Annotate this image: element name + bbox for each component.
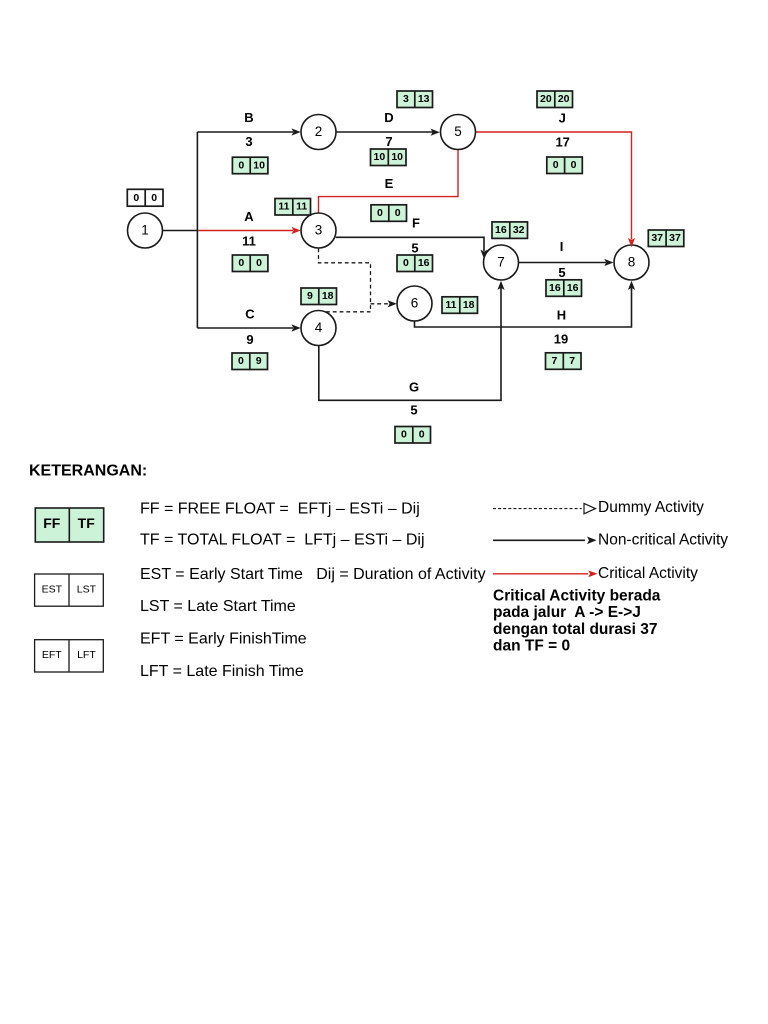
- wire edge F (3-7): [336, 237, 488, 258]
- wire dummy 4-6 dashed: [326, 311, 371, 313]
- float box 0|9 (C): [232, 353, 268, 370]
- legend text FF formula: [140, 501, 420, 518]
- svg-text:LFT: LFT: [77, 649, 96, 661]
- svg-text:18: 18: [463, 299, 475, 311]
- value 7 (D): [385, 134, 392, 149]
- svg-text:5: 5: [411, 240, 418, 255]
- svg-text:0: 0: [238, 159, 244, 171]
- wire dummy 3-6 dashed: [319, 248, 371, 311]
- svg-text:11: 11: [445, 299, 456, 311]
- svg-text:11: 11: [242, 234, 256, 249]
- wire edge D (2-5): [336, 129, 440, 136]
- label G: [409, 380, 419, 395]
- float box 0|10 (B): [232, 157, 268, 174]
- svg-text:F: F: [412, 216, 420, 231]
- node 1: [128, 213, 163, 248]
- node 6: [397, 286, 432, 321]
- svg-text:C: C: [245, 306, 255, 321]
- svg-text:0: 0: [401, 429, 407, 441]
- svg-text:10: 10: [253, 159, 265, 171]
- float box 37|37 (node8): [648, 230, 684, 247]
- svg-text:G: G: [409, 380, 419, 395]
- svg-text:7: 7: [551, 355, 557, 367]
- wire edge A (1-3) critical red: [198, 227, 301, 234]
- svg-text:5: 5: [454, 124, 462, 139]
- svg-text:dan TF = 0: dan TF = 0: [493, 637, 570, 654]
- svg-text:37: 37: [669, 232, 681, 244]
- svg-text:H: H: [557, 308, 566, 323]
- svg-text:Critical Activity: Critical Activity: [598, 565, 698, 582]
- svg-text:7: 7: [497, 255, 505, 270]
- svg-text:Dummy Activity: Dummy Activity: [598, 499, 704, 516]
- value 5 (F): [411, 240, 418, 255]
- svg-text:TF = TOTAL FLOAT = LFTj – EST: TF = TOTAL FLOAT = LFTj – ESTi – Dij: [140, 532, 425, 549]
- svg-text:1: 1: [141, 223, 149, 238]
- legend text TF formula: [140, 532, 425, 549]
- legend title KETERANGAN: [29, 463, 147, 480]
- svg-text:20: 20: [540, 93, 552, 105]
- svg-text:32: 32: [513, 224, 525, 236]
- legend note critical path: [493, 588, 661, 655]
- svg-text:EFT = Early FinishTime: EFT = Early FinishTime: [140, 631, 307, 648]
- legend text EFT: [140, 631, 307, 648]
- legend text LST: [140, 598, 296, 615]
- float box 9|18 (node4): [301, 288, 337, 305]
- svg-text:0: 0: [395, 207, 401, 219]
- svg-text:0: 0: [238, 355, 244, 367]
- svg-text:dengan total durasi 37: dengan total durasi 37: [493, 621, 658, 638]
- svg-text:19: 19: [554, 332, 568, 347]
- node 2: [301, 115, 336, 150]
- legend text LFT: [140, 663, 304, 680]
- svg-text:E: E: [385, 176, 394, 191]
- svg-text:8: 8: [628, 255, 636, 270]
- wire edge G (4-7): [319, 281, 505, 401]
- wire edge I (7-8): [519, 259, 614, 266]
- wire dummy arrow into 6: [371, 300, 397, 307]
- svg-text:FF: FF: [43, 515, 61, 531]
- svg-text:D: D: [384, 110, 393, 125]
- label B: [244, 110, 253, 125]
- svg-text:17: 17: [555, 135, 569, 150]
- node 7: [484, 245, 519, 280]
- wire node1 to junction: [163, 230, 199, 232]
- float box 7|7 (H): [546, 353, 582, 370]
- label F: [412, 216, 420, 231]
- svg-text:9: 9: [246, 332, 253, 347]
- svg-text:B: B: [244, 110, 253, 125]
- svg-text:0: 0: [151, 192, 157, 204]
- svg-text:0: 0: [377, 207, 383, 219]
- svg-text:18: 18: [322, 290, 334, 302]
- svg-text:KETERANGAN:: KETERANGAN:: [29, 463, 147, 480]
- wire edge H (6-8): [415, 281, 636, 327]
- legend text EST: [140, 566, 486, 583]
- svg-text:EST = Early Start Time Dij =: EST = Early Start Time Dij = Duration of…: [140, 566, 486, 583]
- wire edge E (3-5) critical red: [319, 150, 459, 214]
- legend box EST|LST: [35, 574, 104, 606]
- svg-text:LST = Late Start Time: LST = Late Start Time: [140, 598, 296, 615]
- float box 16|32 (node7): [492, 222, 528, 239]
- svg-text:5: 5: [410, 403, 417, 418]
- svg-text:10: 10: [374, 151, 386, 163]
- svg-text:3: 3: [245, 134, 252, 149]
- value 19 (H): [554, 332, 568, 347]
- value 5 (G): [410, 403, 417, 418]
- float box 20|20: [537, 91, 573, 108]
- label I: [560, 239, 564, 254]
- label H: [557, 308, 566, 323]
- svg-text:9: 9: [307, 290, 313, 302]
- svg-text:0: 0: [419, 429, 425, 441]
- wire edge C (1-4): [197, 324, 300, 331]
- svg-text:16: 16: [418, 257, 430, 269]
- svg-text:11: 11: [296, 201, 307, 213]
- float box 11|11 (node3): [275, 199, 311, 216]
- label D: [384, 110, 393, 125]
- svg-text:LST: LST: [77, 584, 97, 596]
- value 5 (I): [558, 265, 565, 280]
- label A: [244, 209, 254, 224]
- svg-text:Critical Activity berada: Critical Activity berada: [493, 588, 661, 605]
- svg-text:10: 10: [391, 151, 403, 163]
- value 9 (C): [246, 332, 253, 347]
- wire edge B (1-2): [197, 128, 300, 135]
- svg-text:16: 16: [567, 282, 579, 294]
- svg-text:0: 0: [238, 257, 244, 269]
- float box 10|10 (D): [371, 149, 407, 166]
- svg-text:J: J: [559, 110, 566, 125]
- label J: [559, 110, 566, 125]
- float box 0|0 node1 white: [127, 189, 163, 206]
- legend box EFT|LFT: [35, 640, 104, 672]
- svg-text:7: 7: [569, 355, 575, 367]
- svg-text:3: 3: [403, 93, 409, 105]
- label E: [385, 176, 394, 191]
- legend critical sample: [493, 565, 698, 582]
- float box 16|16 (I): [546, 280, 582, 297]
- svg-text:4: 4: [315, 320, 323, 335]
- float box 0|0 (E): [371, 205, 407, 222]
- value 11 (A): [242, 234, 256, 249]
- svg-text:TF: TF: [78, 515, 96, 531]
- svg-text:0: 0: [256, 257, 262, 269]
- svg-text:5: 5: [558, 265, 565, 280]
- svg-text:13: 13: [418, 93, 430, 105]
- float box 11|18 (node6): [442, 297, 478, 314]
- svg-text:0: 0: [133, 192, 139, 204]
- node 5: [441, 115, 476, 150]
- svg-text:20: 20: [558, 93, 570, 105]
- float box 3|13: [397, 91, 433, 108]
- svg-text:EFT: EFT: [42, 649, 62, 661]
- svg-text:FF = FREE FLOAT = EFTj – ESTi: FF = FREE FLOAT = EFTj – ESTi – Dij: [140, 501, 420, 518]
- svg-text:EST: EST: [42, 584, 63, 596]
- float box 0|0 (J): [547, 157, 583, 174]
- float box 0|0 (A): [232, 255, 268, 272]
- svg-text:0: 0: [571, 159, 577, 171]
- node 3: [301, 213, 336, 248]
- svg-text:0: 0: [403, 257, 409, 269]
- svg-text:16: 16: [549, 282, 561, 294]
- legend dummy activity sample: [493, 499, 704, 516]
- arrowhead J into node 8: [628, 238, 635, 247]
- label C: [245, 306, 255, 321]
- svg-text:11: 11: [278, 201, 289, 213]
- svg-text:0: 0: [553, 159, 559, 171]
- svg-text:6: 6: [411, 296, 419, 311]
- svg-text:pada jalur A -> E->J: pada jalur A -> E->J: [493, 604, 641, 621]
- value 3 (B): [245, 134, 252, 149]
- wire vertical junction trunk: [196, 132, 198, 328]
- svg-text:16: 16: [495, 224, 507, 236]
- float box 0|0 (G): [395, 427, 431, 444]
- svg-text:2: 2: [315, 124, 323, 139]
- node 8: [614, 245, 649, 280]
- wire edge J (5-8) critical red: [476, 132, 632, 240]
- svg-text:Non-critical Activity: Non-critical Activity: [598, 532, 728, 549]
- svg-text:LFT = Late Finish Time: LFT = Late Finish Time: [140, 663, 304, 680]
- svg-text:A: A: [244, 209, 254, 224]
- svg-text:3: 3: [315, 223, 323, 238]
- svg-text:I: I: [560, 239, 564, 254]
- legend box FF|TF: [35, 508, 103, 542]
- value 17 (J): [555, 135, 569, 150]
- svg-text:37: 37: [651, 232, 663, 244]
- float box 0|16 (F): [397, 255, 433, 272]
- svg-text:7: 7: [385, 134, 392, 149]
- svg-text:9: 9: [256, 355, 262, 367]
- legend non-critical sample: [493, 532, 728, 549]
- node 4: [301, 311, 336, 346]
